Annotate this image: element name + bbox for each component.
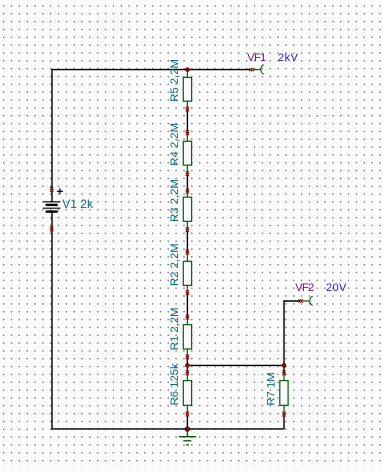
- wire R7 top: [283, 365, 285, 373]
- wire left lower: battery to bottom corner: [51, 212, 53, 430]
- svg-text:R4 2,2M: R4 2,2M: [169, 123, 181, 166]
- svg-text:VF1: VF1: [247, 52, 266, 64]
- wire R1 to mid junction: [186, 357, 188, 365]
- terminal VF1: [254, 65, 264, 74]
- pin mark R3 top: [186, 189, 190, 194]
- resistor R6: [183, 373, 191, 414]
- pin mark battery top: [50, 187, 54, 192]
- pin mark VF1 wire end: [250, 68, 254, 71]
- svg-text:R2 2,2M: R2 2,2M: [169, 243, 181, 286]
- resistor R4: [183, 133, 191, 174]
- ground: [179, 429, 196, 445]
- pin mark R5 bottom: [186, 107, 190, 112]
- wire bottom: left corner to R7 corner: [51, 428, 283, 430]
- pin mark R3 bottom: [186, 227, 190, 232]
- battery V1: [43, 188, 63, 211]
- wire R6 to ground junction: [186, 414, 188, 429]
- svg-text:R3 2,2M: R3 2,2M: [169, 179, 181, 222]
- junction node right: [282, 363, 287, 368]
- wire VF2 horizontal: [283, 300, 299, 302]
- resistor R3: [183, 192, 191, 231]
- pin mark R6 bottom: [186, 412, 190, 417]
- junction node ground: [185, 426, 190, 431]
- pin mark R6 top: [186, 371, 190, 376]
- wire R4-R3: [186, 174, 188, 192]
- resistor R2: [183, 253, 191, 293]
- wire R7 bottom to corner: [283, 414, 285, 429]
- junction node mid: [185, 363, 190, 368]
- pin mark R4 bottom: [186, 171, 190, 176]
- svg-text:R6 125k: R6 125k: [169, 363, 181, 405]
- svg-text:2kV: 2kV: [278, 52, 299, 64]
- wire mid horizontal: junction to VF2/R7 branch: [187, 364, 284, 366]
- pin mark R7 top: [282, 371, 286, 376]
- pin mark R1 top: [186, 315, 190, 320]
- svg-text:R1 2,2M: R1 2,2M: [169, 307, 181, 350]
- svg-text:V1 2k: V1 2k: [62, 197, 94, 211]
- svg-text:R7 1M: R7 1M: [266, 372, 278, 405]
- wire VF2 vertical: [283, 300, 285, 365]
- wire R2-R1: [186, 293, 188, 318]
- wire R5-R4: [186, 110, 188, 134]
- svg-text:R5 2,2M: R5 2,2M: [169, 59, 181, 102]
- pin mark R2 top: [186, 250, 190, 255]
- pin marks: [50, 68, 303, 417]
- pin mark R4 top: [186, 130, 190, 135]
- resistor R5: [183, 70, 191, 110]
- terminal VF2: [303, 296, 313, 305]
- wire top: battery top to VF1: [51, 69, 250, 71]
- pin mark R2 bottom: [186, 290, 190, 295]
- wire left: top corner down to battery: [51, 69, 53, 202]
- svg-text:20V: 20V: [326, 282, 347, 294]
- svg-text:VF2: VF2: [295, 282, 314, 294]
- resistor R7: [280, 373, 288, 414]
- junction node top: [185, 67, 190, 72]
- pin mark R7 bottom: [282, 412, 286, 417]
- resistor R1: [183, 318, 191, 358]
- pin mark VF2 wire end: [299, 299, 303, 302]
- wire mid junction to R6: [186, 365, 188, 373]
- pin mark battery bottom: [50, 227, 54, 232]
- pin mark R1 bottom: [186, 355, 190, 360]
- wire R3-R2: [186, 230, 188, 253]
